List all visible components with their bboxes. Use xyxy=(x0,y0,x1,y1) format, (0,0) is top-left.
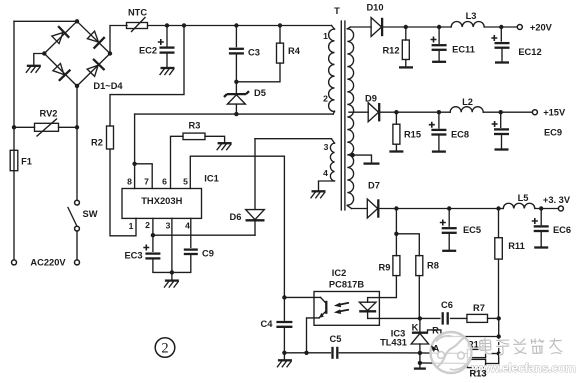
inductor L5 xyxy=(503,203,535,208)
wire TL431 K stem xyxy=(419,318,421,331)
junction EC2 top xyxy=(165,23,169,27)
ground bar below EC8 xyxy=(432,150,446,152)
wire top rail xyxy=(148,25,332,27)
wire ground stem xyxy=(171,272,173,280)
wire R2 to IC1 pin1 xyxy=(110,149,136,236)
diode LED in IC2 xyxy=(359,302,376,310)
wire EC2 stem top xyxy=(166,26,168,47)
diode D9 xyxy=(368,103,378,122)
wire pins7-8 riser xyxy=(134,114,136,188)
junction C4 ground node xyxy=(282,351,286,355)
wire LED cathode to K node xyxy=(368,311,420,318)
junction R13 row xyxy=(418,361,422,365)
junction bridge left xyxy=(42,51,46,55)
wire collector line xyxy=(284,296,320,298)
wire R11 bottom xyxy=(498,259,500,318)
ground bar below EC11 xyxy=(432,61,446,63)
wire EC6 stem xyxy=(540,209,542,225)
svg-text:EC9: EC9 xyxy=(544,127,562,137)
junction R10-R13 vertical xyxy=(497,334,501,338)
ground at bridge left xyxy=(27,65,41,67)
junction C4 line collector branch xyxy=(282,295,286,299)
svg-text:D1~D4: D1~D4 xyxy=(93,81,123,91)
wire rail down-left to R2 xyxy=(110,26,184,127)
wire D6 bottom xyxy=(254,221,256,235)
wire pin2 stub xyxy=(152,218,154,235)
wire EC11 stem xyxy=(438,27,440,43)
wire R12 stem xyxy=(405,27,407,40)
junction IC1 ground node xyxy=(170,270,174,274)
ground at winding 4 xyxy=(312,190,326,192)
junction secondary centre tap xyxy=(350,153,354,157)
ground bar below EC12 xyxy=(495,61,509,63)
wire EC5 bottom xyxy=(448,233,450,250)
svg-text:4: 4 xyxy=(323,168,328,178)
junction pin2/EC3 xyxy=(151,233,155,237)
junction R10 right xyxy=(497,352,501,356)
wire EC3 bottom xyxy=(153,258,172,272)
wire RV2 right lead xyxy=(59,126,78,128)
wire R4 stem top xyxy=(279,26,281,44)
wire R10 right xyxy=(486,353,499,355)
figure number 2 xyxy=(155,338,175,358)
wire pin7 jog xyxy=(135,164,153,189)
wire EC8 stem xyxy=(438,112,440,128)
svg-text:R2: R2 xyxy=(91,137,103,147)
wire D7 node down xyxy=(395,209,397,256)
junction K node xyxy=(418,316,422,320)
ground bar below R12 xyxy=(399,66,413,68)
junction R15 top xyxy=(394,110,398,114)
wire D9 to L2 xyxy=(380,111,450,113)
wire pin1 stub xyxy=(135,217,137,219)
light arrows xyxy=(340,303,350,305)
junction R4 top xyxy=(278,23,282,27)
svg-text:R7: R7 xyxy=(473,303,485,313)
wire anode to R13 row xyxy=(419,353,421,363)
wire R13 row xyxy=(420,362,468,365)
junction EC9 top xyxy=(499,110,503,114)
wire EC12 stem xyxy=(500,27,502,41)
svg-text:EC8: EC8 xyxy=(451,129,469,139)
svg-text:IC1: IC1 xyxy=(204,173,218,183)
svg-text:C3: C3 xyxy=(248,47,260,57)
svg-text:1: 1 xyxy=(323,31,328,41)
capacitor C9 xyxy=(184,248,198,250)
capacitor C4 xyxy=(276,321,292,323)
inductor L3 xyxy=(451,22,484,28)
resistor R11 xyxy=(495,238,503,259)
wire L3 to terminal xyxy=(484,26,517,28)
svg-text:D5: D5 xyxy=(254,88,266,98)
node AC right terminal xyxy=(75,260,80,265)
capacitor EC9 xyxy=(494,128,509,130)
svg-text:EC11: EC11 xyxy=(452,45,475,55)
junction emitter join xyxy=(304,351,308,355)
wire EC11 bottom xyxy=(438,50,440,61)
junction top rail to R2 xyxy=(182,23,186,27)
node +15V terminal xyxy=(532,110,537,115)
node +20V terminal xyxy=(517,25,522,30)
wire R9 to LED anode xyxy=(368,276,397,303)
wire R15 bottom xyxy=(395,144,397,151)
wire D10 to L3 xyxy=(383,26,452,28)
junction R8 branch xyxy=(394,232,398,236)
diode D7 xyxy=(367,199,377,218)
wire L2 to terminal xyxy=(483,111,532,113)
svg-text:NTC: NTC xyxy=(128,7,147,17)
wire R13 right xyxy=(486,363,499,365)
junction pin7 jog xyxy=(132,162,136,166)
wire right feedback vertical xyxy=(498,318,500,363)
wire EC9 bottom xyxy=(501,134,503,149)
capacitor EC3 xyxy=(145,252,160,254)
svg-text:EC3: EC3 xyxy=(124,251,142,261)
junction TL431 anode xyxy=(418,351,422,355)
wire bridge right up to NTC xyxy=(110,26,127,54)
svg-text:+15V: +15V xyxy=(543,108,566,118)
wire C4 ground stem xyxy=(283,353,285,360)
wire R11 stem top xyxy=(498,209,500,238)
watermark logo circle xyxy=(431,332,472,373)
svg-text:+3. 3V: +3. 3V xyxy=(543,195,571,205)
junction bridge bottom xyxy=(75,84,79,88)
capacitor EC2 xyxy=(160,46,175,48)
wire D6 top xyxy=(254,139,256,210)
wire primary return line xyxy=(135,113,334,115)
junction R11 top xyxy=(496,206,500,210)
ground bar below EC9 xyxy=(495,148,509,150)
wire centre tap to ground xyxy=(353,155,372,163)
ground below IC1 xyxy=(165,279,179,281)
svg-text:C4: C4 xyxy=(261,319,274,329)
svg-text:K: K xyxy=(412,322,419,332)
svg-text:THX203H: THX203H xyxy=(141,195,182,206)
wire anode ground stem xyxy=(419,363,421,368)
svg-text:R15: R15 xyxy=(404,130,421,140)
junction EC12 top xyxy=(499,25,503,29)
svg-text:EC2: EC2 xyxy=(139,45,157,55)
wire RV2 left lead xyxy=(14,126,35,128)
capacitor C6 xyxy=(442,312,444,324)
diode D5 (zener) xyxy=(227,93,246,95)
junction EC8 top xyxy=(437,110,441,114)
wire D7 to L5 xyxy=(379,208,503,210)
ground at R3 xyxy=(218,142,232,144)
op-amp U2 IC2 PC817B body xyxy=(314,292,379,326)
svg-text:R8: R8 xyxy=(427,261,439,271)
transistor Q2 IC3 TL431 xyxy=(412,332,428,334)
svg-text:C6: C6 xyxy=(441,300,453,310)
wire C9 bottom xyxy=(172,254,191,272)
capacitor EC8 xyxy=(431,129,446,131)
junction C3/R4/D5 xyxy=(234,80,238,84)
transformer aux winding 3-4 xyxy=(330,143,334,181)
wire secondary bottom lead xyxy=(347,206,351,209)
diode D1 (top-left arm) xyxy=(50,26,69,45)
wire bridge bottom to switch xyxy=(76,86,78,200)
wire EC6 bottom xyxy=(540,231,542,247)
resistor R3 xyxy=(183,133,205,140)
svg-text:L2: L2 xyxy=(462,97,473,107)
wire R8 to K node xyxy=(418,276,420,319)
wire EC8 bottom xyxy=(438,135,440,152)
svg-text:AC220V: AC220V xyxy=(30,258,66,268)
capacitor EC11 xyxy=(432,44,447,46)
svg-text:RV2: RV2 xyxy=(40,108,58,118)
junction EC6 top xyxy=(539,206,543,210)
wire C6 lead xyxy=(420,317,440,319)
junction D5 bottom xyxy=(234,112,238,116)
wire R12 bottom xyxy=(405,60,407,67)
junction RV2 left xyxy=(12,125,16,129)
wire R10 row xyxy=(420,352,468,355)
svg-text:D7: D7 xyxy=(368,180,380,190)
node SW bottom contact xyxy=(75,226,80,231)
wire D6 return line xyxy=(153,234,255,236)
svg-text:4: 4 xyxy=(185,221,190,231)
svg-text:C9: C9 xyxy=(202,248,214,258)
node AC left terminal xyxy=(12,260,17,265)
wire EC2 stem bottom xyxy=(166,53,168,68)
svg-text:R3: R3 xyxy=(189,120,201,130)
wire switch to terminal xyxy=(76,231,78,260)
capacitor C3 xyxy=(229,48,244,50)
ground below C4 xyxy=(278,359,292,361)
svg-text:TL431: TL431 xyxy=(380,337,407,347)
svg-text:D6: D6 xyxy=(230,212,242,222)
svg-text:7: 7 xyxy=(144,177,149,187)
svg-text:IC2: IC2 xyxy=(332,268,346,278)
wire pin4 to C9 xyxy=(190,218,192,247)
wire C6 to R7 xyxy=(451,317,467,319)
transformer secondary winding xyxy=(347,29,353,205)
wire winding4 to ground xyxy=(319,181,335,191)
wire C3 stem top xyxy=(235,26,237,47)
wire R4 bottom to D5 node xyxy=(236,63,280,82)
op-amp U1 IC1 THX203H body xyxy=(122,189,202,219)
diode D3 (bottom-left arm) xyxy=(51,62,70,81)
svg-text:R4: R4 xyxy=(288,46,301,56)
wire R15 stem xyxy=(395,112,397,124)
diode D6 xyxy=(246,210,265,220)
ground bar below R15 xyxy=(389,150,403,152)
resistor R4 xyxy=(277,43,284,63)
wire winding3 line xyxy=(255,138,332,140)
wire pin6 to R3 xyxy=(171,136,184,188)
wire bridge left to ground xyxy=(34,54,45,66)
svg-text:D9: D9 xyxy=(365,94,377,104)
wire secondary to D9 xyxy=(349,111,368,113)
wire winding2 lead xyxy=(333,111,334,114)
junction D7 output xyxy=(394,206,398,210)
wire winding1 lead xyxy=(332,26,335,30)
diode D4 (bottom-right arm) xyxy=(85,59,104,78)
svg-text:L5: L5 xyxy=(518,193,529,203)
wire EC9 stem xyxy=(500,112,502,127)
bridge rectifier D1~D4 frame xyxy=(44,21,110,86)
svg-text:R11: R11 xyxy=(508,241,525,251)
svg-text:D10: D10 xyxy=(366,3,383,13)
svg-text:3: 3 xyxy=(166,221,171,231)
svg-text:PC817B: PC817B xyxy=(329,279,364,289)
ground bar below EC5 xyxy=(442,250,456,252)
watermark text 电子发烧友 (stylised) xyxy=(480,338,492,355)
resistor R12 xyxy=(402,40,409,60)
wire pin3 to ground xyxy=(171,218,173,272)
resistor R2 xyxy=(107,126,114,149)
capacitor EC6 xyxy=(534,225,549,227)
wire winding3 lead curve xyxy=(332,139,335,144)
svg-text:+20V: +20V xyxy=(530,23,553,33)
wire secondary top lead xyxy=(347,27,350,29)
wire L5 to terminal xyxy=(535,208,559,210)
wire top-left to bridge xyxy=(14,20,77,22)
svg-text:1: 1 xyxy=(129,221,134,231)
node SW top contact xyxy=(75,200,80,205)
resistor R7 xyxy=(467,314,488,322)
junction EC5 top xyxy=(447,206,451,210)
junction bridge right xyxy=(108,51,112,55)
svg-text:2: 2 xyxy=(161,340,168,356)
switch SW lever xyxy=(68,208,77,226)
svg-text:EC12: EC12 xyxy=(518,47,541,57)
svg-text:8: 8 xyxy=(127,177,132,187)
wire R7 right xyxy=(488,317,499,319)
wire R8 branch xyxy=(396,234,419,256)
wire C3 stem bottom xyxy=(235,53,237,81)
ground bar at centre tap xyxy=(364,162,380,164)
svg-text:2: 2 xyxy=(145,220,150,230)
node +3.3V terminal xyxy=(558,206,563,211)
ground bar below EC6 xyxy=(534,246,548,248)
diode D10 xyxy=(371,18,381,37)
resistor R13 xyxy=(467,359,485,367)
resistor R9 xyxy=(393,256,400,276)
capacitor EC5 xyxy=(442,227,457,229)
varistor RV2 xyxy=(35,123,59,131)
ground below EC2 xyxy=(161,67,175,69)
svg-text:T: T xyxy=(334,6,340,16)
wire R electrode xyxy=(428,330,499,337)
svg-text:3: 3 xyxy=(324,142,329,152)
svg-text:R9: R9 xyxy=(379,262,391,272)
inductor L2 xyxy=(450,107,483,113)
svg-text:C5: C5 xyxy=(330,334,342,344)
resistor R8 xyxy=(416,256,423,276)
svg-text:L3: L3 xyxy=(466,11,477,21)
svg-text:SW: SW xyxy=(83,209,98,219)
fuse F1 xyxy=(10,150,18,170)
svg-text:5: 5 xyxy=(183,177,188,187)
ground bar below TL431 xyxy=(414,367,426,369)
wire AC input left line xyxy=(13,21,15,260)
wire EC3 stem top xyxy=(152,235,154,251)
wire EC12 bottom xyxy=(501,48,503,62)
wire C5 row left xyxy=(284,352,330,354)
wire pin5 to C4 line xyxy=(190,156,284,320)
svg-text:6: 6 xyxy=(162,177,167,187)
junction bridge top xyxy=(75,19,79,23)
junction EC11 top xyxy=(437,25,441,29)
wire C5 row right xyxy=(339,352,420,354)
svg-text:2: 2 xyxy=(323,94,328,104)
thermistor NTC xyxy=(127,23,148,29)
junction R7/R11 node xyxy=(497,316,501,320)
wire R3 right to ground xyxy=(205,136,225,142)
diode D2 (top-right arm) xyxy=(85,29,104,48)
svg-text:F1: F1 xyxy=(21,156,32,166)
wire C4 bottom xyxy=(283,327,285,353)
resistor R10 xyxy=(467,349,485,357)
junction RV2 right xyxy=(75,125,79,129)
transformer primary winding 1-2 xyxy=(329,29,335,112)
junction R12 top xyxy=(404,25,408,29)
svg-text:R12: R12 xyxy=(382,46,399,56)
junction C3 top xyxy=(234,23,238,27)
capacitor C5 xyxy=(331,347,333,359)
svg-text:R13: R13 xyxy=(469,368,486,378)
svg-text:EC5: EC5 xyxy=(463,225,481,235)
svg-text:EC6: EC6 xyxy=(553,225,571,235)
transistor Q1 phototransistor xyxy=(321,297,327,303)
resistor R15 xyxy=(393,124,400,144)
wire emitter lead xyxy=(307,318,320,353)
wire EC5 stem xyxy=(448,209,450,227)
capacitor EC12 xyxy=(495,42,510,44)
transformer T core xyxy=(340,21,342,210)
